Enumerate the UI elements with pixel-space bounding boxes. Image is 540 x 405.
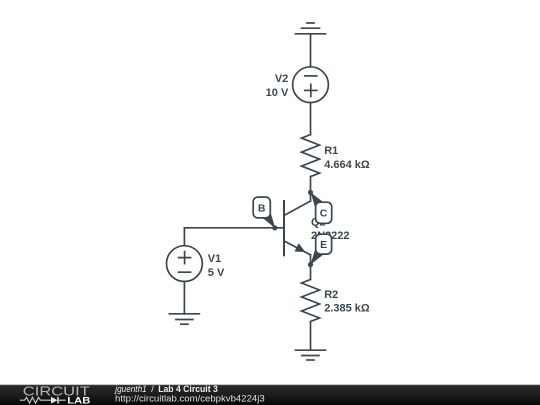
svg-text:10 V: 10 V: [266, 87, 289, 99]
ground (below V1): [169, 314, 199, 324]
label R2 value: [324, 289, 370, 315]
svg-text:C: C: [320, 208, 328, 220]
resistor R2: [302, 280, 320, 322]
svg-text:jguenth1/Lab 4 Circuit 3: jguenth1/Lab 4 Circuit 3: [114, 384, 217, 394]
label Q2 value: [311, 217, 350, 243]
label R1 value: [324, 145, 370, 171]
resistor R1: [302, 135, 320, 177]
svg-text:B: B: [258, 202, 266, 214]
voltage source V1 5V: [167, 246, 203, 282]
transistor Q2 2N2222: [284, 192, 311, 264]
svg-text:http://circuitlab.com/cebpkvb4: http://circuitlab.com/cebpkvb4224j3: [115, 394, 265, 404]
wire top-ground to V2: [310, 34, 312, 67]
svg-text:V2: V2: [275, 73, 288, 85]
label V1 value: [208, 253, 225, 279]
wire R1 to collector node: [310, 177, 312, 193]
svg-text:5 V: 5 V: [208, 267, 225, 279]
svg-text:V1: V1: [208, 253, 221, 265]
node B flag: [253, 197, 277, 230]
svg-text:4.664 kΩ: 4.664 kΩ: [324, 159, 370, 171]
voltage source V2 10V: [293, 67, 329, 103]
wire V2 to R1: [310, 103, 312, 135]
svg-text:E: E: [320, 239, 327, 251]
wire R2 to ground: [310, 322, 312, 351]
svg-text:LAB: LAB: [67, 396, 90, 405]
node C flag: [308, 190, 332, 224]
wire base (V1 to Q2): [184, 228, 284, 246]
CircuitLab logo: [20, 383, 90, 405]
node E flag: [308, 234, 332, 267]
svg-text:2.385 kΩ: 2.385 kΩ: [324, 303, 370, 315]
wire V1 to ground: [183, 282, 185, 314]
svg-text:R1: R1: [324, 145, 338, 157]
svg-text:R2: R2: [324, 289, 338, 301]
ground (bottom): [296, 350, 326, 360]
wire emitter node to R2: [310, 265, 312, 280]
label V2 value: [266, 73, 289, 99]
ground (top, inverted): [296, 23, 326, 34]
